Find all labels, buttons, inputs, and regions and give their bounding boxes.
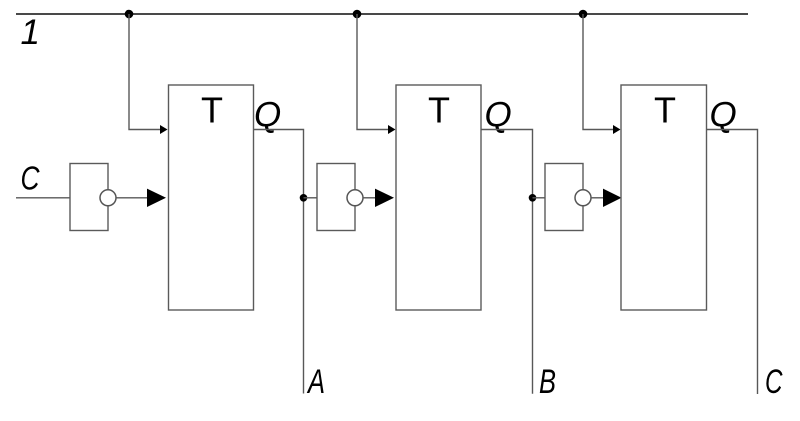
arrowhead FF1 T input	[160, 125, 168, 134]
svg-text:C: C	[21, 160, 41, 197]
wire: logic-1 supply rail	[16, 13, 748, 15]
svg-text:Q: Q	[485, 96, 512, 135]
wire: junction J5 to inverter G3	[533, 197, 546, 199]
junction J3 on rail	[579, 10, 588, 19]
inverter G3 bubble	[575, 190, 591, 206]
inverter G3 body	[545, 164, 583, 231]
junction J4 on Q1 line	[300, 194, 308, 202]
svg-text:Q: Q	[710, 96, 737, 135]
svg-text:1: 1	[21, 13, 40, 52]
clock edge arrow FF1	[147, 189, 166, 207]
inverter G2 bubble	[347, 190, 363, 206]
wire: FF3 Q output to node C	[707, 130, 758, 395]
wire: rail to FF2 T input	[357, 14, 389, 130]
svg-text:B: B	[539, 363, 556, 401]
inverter G1 bubble	[100, 190, 116, 206]
wire: junction J4 to inverter G2	[304, 197, 318, 199]
clock edge arrow FF2	[375, 189, 394, 207]
junction J5 on Q2 line	[529, 194, 537, 202]
junction J1 on rail	[125, 10, 134, 19]
arrowhead FF3 T input	[613, 125, 621, 134]
svg-text:T: T	[428, 90, 450, 131]
wire: C input to inverter G1	[16, 197, 70, 199]
inverter G2 body	[317, 164, 355, 231]
arrowhead FF2 T input	[388, 125, 396, 134]
svg-text:Q: Q	[254, 96, 281, 135]
T flip-flop FF2 body	[396, 85, 481, 310]
wire: G1 bubble to FF1 clock arrow	[116, 197, 148, 199]
T flip-flop FF3 body	[621, 85, 707, 310]
svg-text:T: T	[654, 90, 676, 131]
junction J2 on rail	[353, 10, 362, 19]
wire: FF1 Q output to node A	[254, 130, 304, 394]
wire: rail to FF1 T input	[129, 14, 161, 130]
inverter G1 body	[70, 164, 108, 231]
wire: G2 bubble to FF2 clock arrow	[363, 197, 376, 199]
wire: rail to FF3 T input	[583, 14, 614, 130]
svg-text:C: C	[765, 363, 783, 401]
clock edge arrow FF3	[603, 189, 622, 207]
wire: FF2 Q output to node B	[481, 130, 533, 394]
T flip-flop FF1 body	[169, 85, 254, 310]
wire: G3 bubble to FF3 clock arrow	[591, 197, 604, 199]
svg-text:A: A	[307, 363, 325, 401]
svg-text:T: T	[201, 90, 223, 131]
